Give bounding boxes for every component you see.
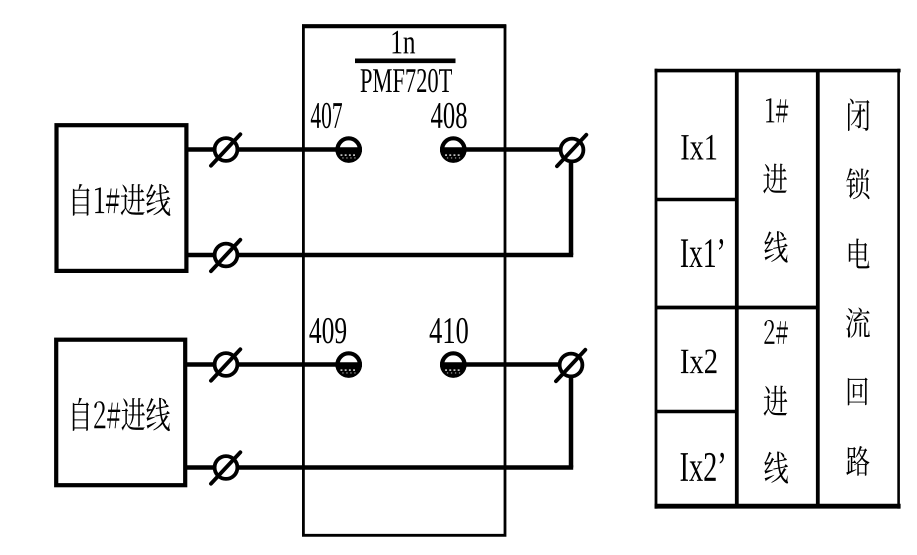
- relay case 1n PMF720T outline: [303, 26, 505, 535]
- terminal 407 symbol: [338, 138, 360, 160]
- label 线 row1: [764, 231, 787, 262]
- label 路: [846, 446, 869, 476]
- test terminal lower-left of box1 wire: [215, 244, 238, 267]
- wire vertical right upper loop: [569, 148, 574, 255]
- table row line Ix1/Ix1': [656, 198, 737, 202]
- box source 自1#进线: [57, 125, 187, 271]
- wire vertical right lower loop: [569, 363, 574, 468]
- label 2#: [764, 320, 788, 344]
- label 自2#进线: [73, 398, 170, 431]
- test terminal upper-left of box1 wire: [215, 138, 238, 161]
- table column line col2/col3: [816, 71, 820, 507]
- label 闭: [848, 98, 870, 130]
- label 流: [846, 308, 870, 338]
- fraction bar under 1n: [355, 58, 456, 63]
- label 410: [430, 318, 468, 344]
- label 409: [309, 318, 346, 344]
- label 进 row1: [763, 164, 787, 194]
- wire box2 upper to terminal 409: [187, 362, 362, 367]
- label Ix2': [681, 453, 724, 481]
- label 1#: [766, 98, 788, 122]
- wire lower return to box1: [187, 253, 574, 258]
- terminal 409 symbol: [338, 353, 360, 375]
- wire terminal 410 to right bend: [441, 362, 573, 367]
- label 进 row2: [764, 386, 788, 416]
- test terminal upper-left of box2 wire: [215, 353, 238, 376]
- test terminal lower-left of box2 wire: [215, 456, 238, 479]
- terminal 410 symbol: [442, 353, 464, 375]
- table column line col1/col2: [735, 71, 739, 507]
- wire box1 upper to terminal 407: [187, 147, 362, 152]
- label 锁: [846, 168, 869, 199]
- label Ix1: [681, 135, 716, 160]
- label 回: [848, 378, 868, 406]
- label 自1#进线: [73, 184, 170, 216]
- label PMF720T: [361, 69, 452, 92]
- label 线 row2: [764, 452, 788, 484]
- test terminal right of 408: [561, 139, 584, 162]
- wire lower return to box2: [187, 465, 574, 470]
- box source 自2#进线: [56, 340, 185, 486]
- label 电: [849, 238, 870, 268]
- test terminal right of 410: [560, 354, 583, 377]
- terminal 408 symbol: [442, 138, 464, 160]
- table outer frame: [655, 69, 658, 509]
- label 1n numerator: [393, 31, 416, 54]
- label Ix1': [681, 239, 723, 267]
- label Ix2: [681, 350, 717, 374]
- label 408: [431, 103, 467, 129]
- table row line Ix2/Ix2': [656, 410, 737, 414]
- wire terminal 408 to right bend: [441, 147, 573, 152]
- label 407: [311, 103, 342, 129]
- table row line Ix1'/Ix2 and 1#/2#: [656, 306, 818, 310]
